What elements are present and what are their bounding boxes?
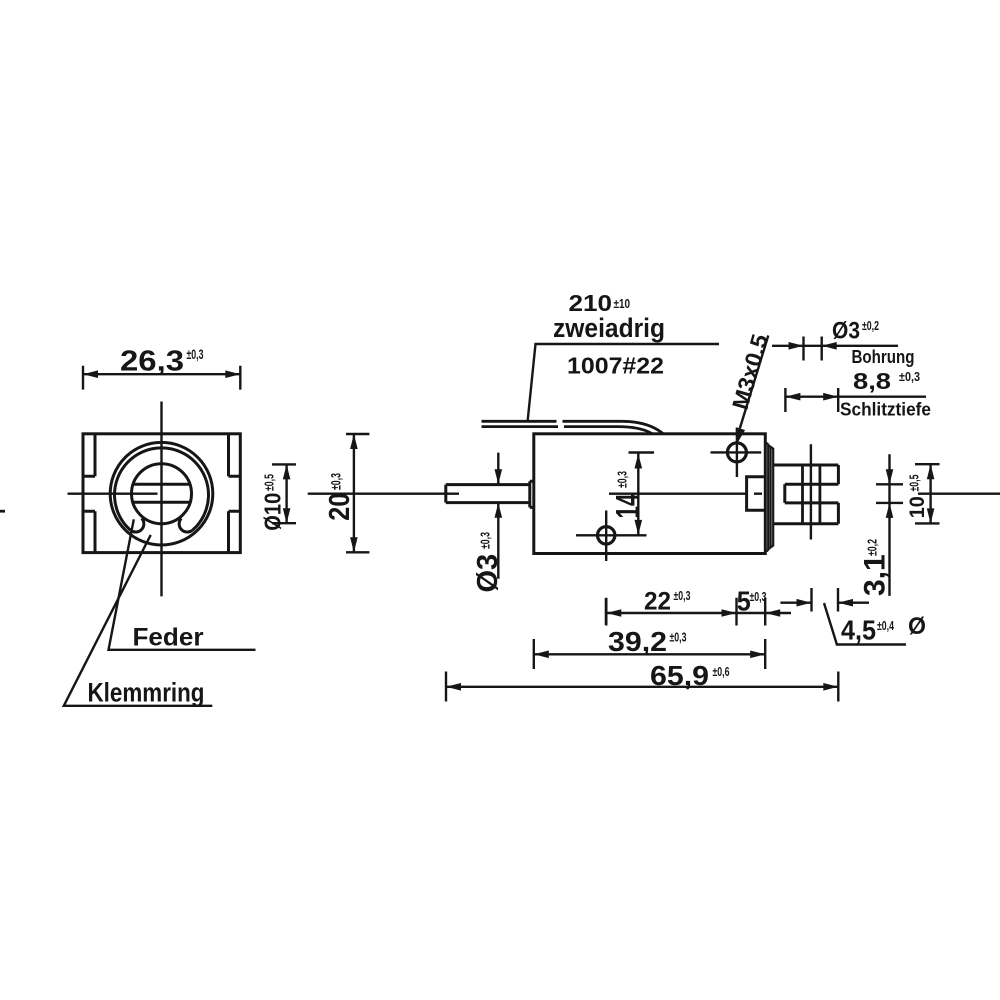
lower mounting hole circle	[576, 511, 647, 562]
svg-text:4,5: 4,5	[841, 615, 876, 646]
svg-text:Feder: Feder	[133, 623, 204, 651]
left edge dash	[0, 510, 5, 513]
dimension 10	[904, 464, 939, 523]
M3 hole circle	[711, 428, 762, 478]
svg-text:Ø3: Ø3	[472, 554, 504, 593]
dimension 26,3	[83, 346, 240, 390]
rear plates	[765, 444, 773, 551]
plunger rod	[446, 481, 534, 507]
svg-text:±0,3: ±0,3	[187, 347, 204, 362]
cross hole centerline	[810, 444, 812, 539]
front view horizontal centerline	[68, 493, 158, 495]
svg-text:±0,2: ±0,2	[862, 319, 879, 333]
front view bore circle	[132, 464, 192, 524]
svg-text:26,3: 26,3	[120, 346, 184, 378]
rear stud fork	[773, 465, 838, 524]
dimension 14	[609, 453, 654, 536]
dimension 8,8 Schlitztiefe	[785, 368, 931, 420]
svg-text:8,8: 8,8	[853, 368, 891, 394]
svg-text:±0,4: ±0,4	[877, 619, 894, 633]
svg-text:10: 10	[904, 496, 929, 518]
front view flange body	[83, 434, 240, 553]
dimension 39,2	[534, 626, 765, 669]
svg-text:65,9: 65,9	[650, 660, 709, 691]
dimension Ø10 front	[259, 464, 296, 530]
Klemmring label and leader	[64, 535, 213, 708]
front view vertical centerline	[160, 402, 162, 597]
clamp ring hooks	[131, 518, 193, 532]
dimension 20 front	[324, 434, 369, 552]
svg-text:±10: ±10	[614, 297, 631, 311]
extension line below lower hole	[605, 598, 607, 625]
svg-text:14: 14	[609, 493, 646, 518]
svg-text:±0,3: ±0,3	[674, 589, 691, 603]
svg-text:±0,3: ±0,3	[899, 370, 920, 384]
svg-text:Klemmring: Klemmring	[88, 678, 205, 708]
lead wire	[482, 421, 664, 433]
svg-text:Ø: Ø	[908, 613, 926, 640]
svg-text:3,1: 3,1	[858, 554, 891, 596]
svg-text:±0,3: ±0,3	[670, 631, 687, 645]
svg-text:±0,6: ±0,6	[713, 665, 730, 679]
front view outer ring circles	[110, 442, 213, 545]
svg-text:±0,3: ±0,3	[329, 473, 344, 490]
svg-text:±0,5: ±0,5	[907, 474, 921, 491]
Feder label and leader	[109, 519, 256, 651]
dimension 4,5	[780, 588, 926, 646]
svg-text:39,2: 39,2	[608, 626, 667, 657]
svg-text:zweiadrig: zweiadrig	[553, 313, 665, 343]
svg-text:20: 20	[324, 493, 356, 521]
svg-text:±0,5: ±0,5	[262, 474, 276, 491]
dimension 3,1	[858, 454, 903, 596]
side view horizontal centerline	[308, 493, 1000, 495]
cross hole edge lines	[803, 465, 820, 524]
spring chords	[133, 484, 190, 502]
dimension Ø3 rod	[472, 453, 504, 593]
interior pole rectangle	[747, 477, 766, 510]
M3x0.5 label and leader	[727, 331, 773, 443]
svg-text:±0,3: ±0,3	[615, 471, 630, 488]
svg-text:Ø10: Ø10	[259, 493, 285, 531]
dimension 65,9	[446, 660, 838, 702]
wire leader and zweiadrig note	[528, 290, 719, 421]
svg-text:22: 22	[644, 588, 671, 616]
svg-text:±0,3: ±0,3	[750, 590, 767, 604]
dimension 22 and 5	[606, 586, 791, 626]
svg-text:±0,3: ±0,3	[478, 532, 493, 549]
svg-text:Bohrung: Bohrung	[852, 346, 915, 367]
dimension Ø3 Bohrung	[772, 318, 915, 368]
svg-text:1007#22: 1007#22	[567, 353, 664, 379]
svg-text:Ø3: Ø3	[832, 318, 860, 345]
svg-text:Schlitztiefe: Schlitztiefe	[840, 399, 931, 420]
side view body	[534, 434, 766, 554]
svg-text:±0,2: ±0,2	[865, 539, 880, 556]
